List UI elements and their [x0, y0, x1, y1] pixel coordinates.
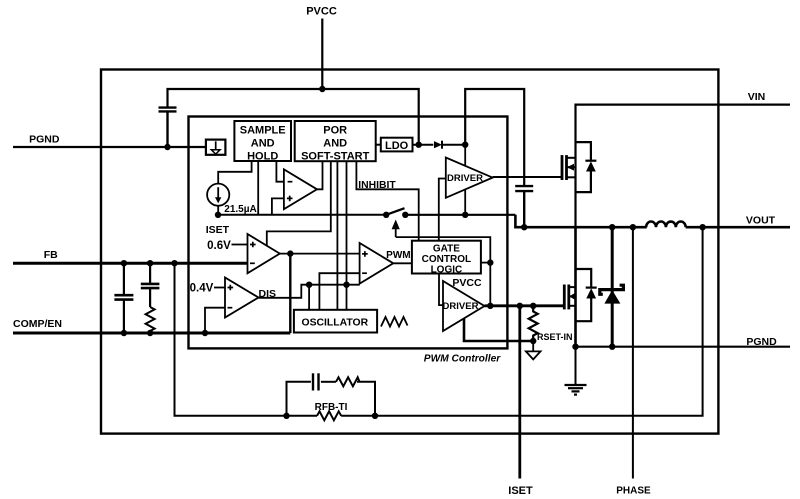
wire bottom driver ground	[464, 319, 533, 341]
svg-text:PHASE: PHASE	[616, 486, 651, 497]
node bootstrap cap to phase	[521, 224, 527, 230]
svg-text:SOFT-START: SOFT-START	[301, 150, 370, 162]
node RFB left	[283, 413, 289, 419]
wire POR to oscillator a	[336, 161, 338, 310]
wire PWM output	[393, 262, 412, 264]
wire bottom driver output to gate	[485, 304, 564, 307]
node bottom gate b (ISET)	[517, 303, 523, 309]
wire gate logic output	[481, 262, 490, 264]
wire COMP/EN pin	[13, 332, 290, 335]
resistor RFB-TI (on main wire)	[317, 411, 341, 420]
svg-text:0.4V: 0.4V	[190, 283, 214, 295]
inner box PWM Controller	[189, 117, 508, 349]
box SAMPLE AND HOLD	[234, 121, 291, 161]
wire feedback bottom	[175, 263, 318, 416]
box OSCILLATOR	[294, 310, 377, 333]
svg-text:RSET-IN: RSET-IN	[537, 332, 573, 342]
node phase schottky	[609, 224, 615, 230]
svg-text:SAMPLE: SAMPLE	[240, 124, 286, 136]
wire phase to low-side drain	[574, 227, 577, 347]
ground symbol box (power ground)	[206, 140, 226, 155]
outer box (device boundary)	[101, 70, 718, 434]
capacitor RFB branch	[313, 373, 319, 390]
op-amp error amplifier 0.6V	[248, 234, 280, 273]
current source 21.5uA	[207, 184, 229, 206]
node cap to PGND line	[164, 144, 170, 150]
node COMP b	[147, 330, 153, 336]
wire ISET branch to limit amp plus input	[272, 198, 284, 214]
wire ISET branch up into sample-hold	[257, 161, 259, 215]
switch inhibit	[386, 208, 404, 215]
svg-text:PWM: PWM	[386, 250, 410, 261]
wire FB pin	[13, 262, 248, 265]
wire VIN	[576, 105, 791, 228]
inductor L1	[646, 221, 686, 227]
svg-text:PGND: PGND	[746, 336, 777, 348]
op-amp bottom driver	[443, 281, 485, 331]
svg-text:POR: POR	[323, 124, 347, 136]
wire RFB parallel branch	[287, 382, 311, 416]
diode Q1 body	[576, 142, 591, 161]
svg-text:COMP/EN: COMP/EN	[13, 318, 62, 330]
node DIS line b	[343, 282, 349, 288]
svg-text:DRIVER: DRIVER	[447, 173, 483, 184]
wire gate logic to bottom driver input	[439, 274, 443, 306]
svg-text:DRIVER: DRIVER	[443, 301, 479, 312]
resistor RSET-IN	[529, 306, 538, 341]
wire COMP riser	[289, 254, 291, 333]
wire bootstrap to top driver supply	[464, 145, 466, 166]
wire top driver output to gate	[493, 176, 561, 178]
svg-text:PVCC: PVCC	[452, 277, 482, 289]
node ISET internal	[215, 212, 221, 218]
op-amp current limit comparator	[284, 169, 317, 209]
wire switch control to gate logic node	[396, 237, 491, 306]
wire DIS to oscillator	[308, 285, 310, 310]
node DIS line a	[306, 282, 312, 288]
svg-text:PWM Controller: PWM Controller	[424, 354, 501, 365]
svg-text:HOLD: HOLD	[247, 150, 278, 162]
diode bootstrap	[434, 141, 442, 148]
diode Q2 body	[576, 269, 592, 288]
wire diode cathode	[442, 144, 466, 146]
ground earth	[565, 385, 587, 395]
node FB c	[171, 260, 177, 266]
svg-text:ISET: ISET	[206, 224, 230, 236]
node COMP c (DIS tap)	[202, 330, 208, 336]
node bootstrap	[462, 142, 468, 148]
wire 0.6V to error amp	[232, 244, 248, 246]
wire sample-hold to current source	[218, 161, 251, 183]
svg-text:LOGIC: LOGIC	[431, 265, 463, 276]
capacitor feedback C1	[114, 263, 133, 333]
ground analog (open triangle)	[532, 341, 534, 351]
diode schottky	[611, 227, 614, 347]
resistor feedback R1	[146, 307, 155, 333]
wire error amp output	[280, 253, 360, 255]
capacitor PVCC bypass	[159, 108, 177, 147]
transistor Q1 high-side MOSFET	[562, 155, 576, 180]
svg-text:VIN: VIN	[748, 91, 766, 103]
svg-text:GATE: GATE	[433, 244, 460, 255]
wire POR to LDO	[376, 144, 381, 146]
node bottom gate a	[487, 303, 493, 309]
node COMP a	[121, 330, 127, 336]
node gate logic output	[487, 259, 493, 265]
svg-text:INHIBIT: INHIBIT	[358, 180, 396, 191]
svg-text:CONTROL: CONTROL	[422, 254, 471, 265]
node phase pin	[630, 224, 636, 230]
wire INHIBIT	[356, 161, 418, 241]
wire PGND right	[576, 346, 791, 348]
svg-text:FB: FB	[44, 249, 58, 261]
node PGND source	[572, 344, 578, 350]
node FB b	[147, 260, 153, 266]
arrow switch control	[395, 227, 397, 237]
svg-text:21.5µA: 21.5µA	[224, 204, 256, 215]
wire source to earth ground	[575, 347, 577, 385]
node FB a	[121, 260, 127, 266]
wire ISET line to switch	[218, 214, 386, 216]
resistor RFB branch	[336, 377, 360, 386]
wire sample-hold to limit amp minus input	[276, 161, 284, 182]
svg-text:0.6V: 0.6V	[207, 240, 231, 252]
node PGND schottky	[609, 344, 615, 350]
wire PHASE pin	[632, 227, 634, 478]
svg-text:PVCC: PVCC	[306, 6, 337, 18]
box LDO	[381, 138, 413, 152]
wire VOUT	[686, 226, 790, 229]
svg-text:AND: AND	[251, 137, 275, 149]
capacitor bootstrap	[515, 186, 533, 227]
transistor Q2 low-side MOSFET	[564, 285, 575, 310]
wire bootstrap rail	[465, 89, 524, 186]
op-amp PWM comparator	[360, 243, 394, 284]
op-amp top driver	[446, 158, 493, 198]
box GATE CONTROL LOGIC	[412, 241, 481, 274]
svg-text:LDO: LDO	[385, 140, 409, 152]
wire POR to oscillator b	[346, 161, 348, 310]
wire PGND left pin	[13, 146, 206, 148]
node RFB right	[372, 413, 378, 419]
box POR AND SOFT-START	[295, 121, 376, 161]
node bottom gate c (RSET)	[530, 303, 536, 309]
node LDO output	[416, 142, 422, 148]
wire switch to phase	[405, 214, 515, 216]
wire POR to error amp top	[267, 161, 331, 245]
wire DIS minus input to COMP/EN	[205, 308, 225, 333]
svg-text:OSCILLATOR: OSCILLATOR	[302, 317, 369, 328]
wire limit amp output to POR	[317, 161, 323, 189]
node driver gnd tap	[462, 212, 468, 218]
svg-text:PGND: PGND	[29, 134, 60, 146]
node RSET bottom	[530, 338, 536, 344]
wire current source to ISET node	[217, 206, 219, 215]
sawtooth symbol	[381, 317, 408, 327]
wire DIS output	[259, 285, 360, 298]
wire phase step	[515, 215, 646, 227]
wire 0.4V to DIS comparator	[214, 287, 225, 289]
wire PVCC pin stub	[321, 19, 323, 90]
svg-text:AND: AND	[323, 137, 347, 149]
svg-text:RFB-TI: RFB-TI	[315, 402, 348, 413]
wire ISET pin	[518, 306, 521, 479]
node VOUT feedback tap	[699, 224, 705, 230]
node COMP	[287, 250, 293, 256]
node PVCC rail junction	[319, 86, 325, 92]
wire PVCC rail	[168, 89, 419, 145]
svg-text:ISET: ISET	[508, 485, 533, 497]
svg-text:VOUT: VOUT	[746, 215, 776, 227]
wire top driver to switch line	[464, 190, 466, 215]
capacitor feedback C2 (series with R)	[141, 263, 160, 307]
wire PWM minus to oscillator	[319, 273, 359, 310]
op-amp DIS comparator	[225, 278, 259, 318]
wire LDO output	[413, 144, 434, 146]
wire gate logic to top driver input	[439, 179, 446, 241]
